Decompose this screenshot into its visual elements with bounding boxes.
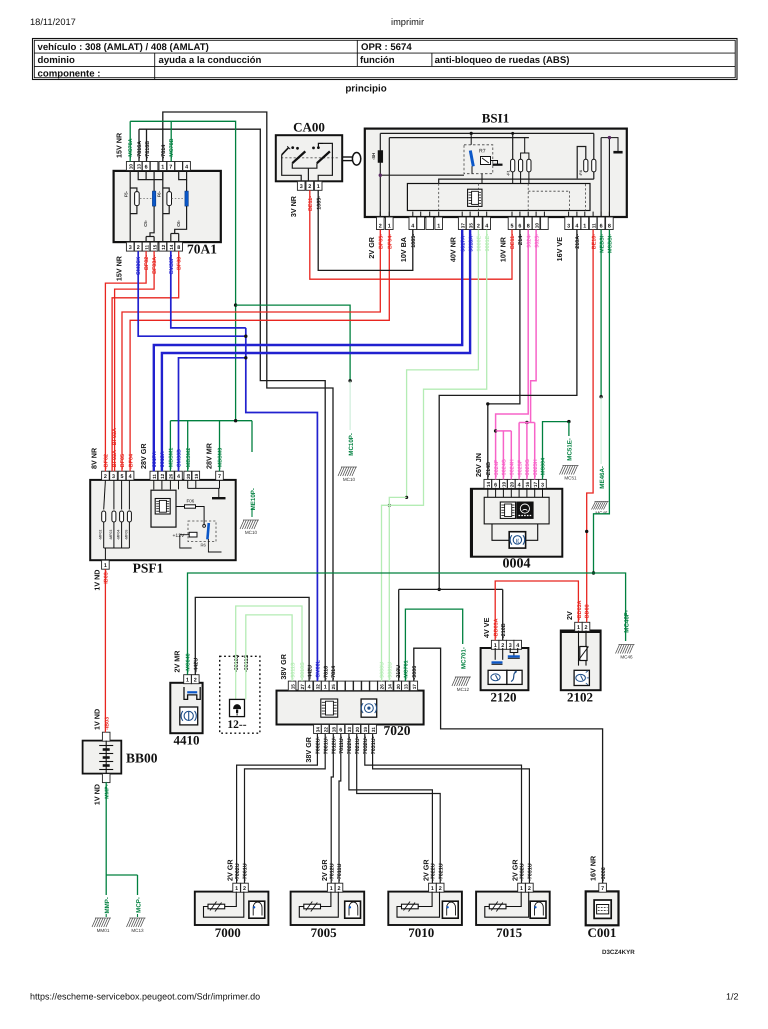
CA00 internal contacts [281, 157, 339, 159]
svg-text:-CM06L: -CM06L [316, 659, 322, 679]
svg-text:10V BA: 10V BA [399, 237, 408, 262]
svg-text:6: 6 [494, 482, 497, 488]
wire MC78A/MC78B green net [129, 121, 131, 161]
svg-text:-MBSM1: -MBSM1 [169, 448, 175, 469]
svg-text:-9024H: -9024H [510, 459, 516, 477]
svg-text:1: 1 [431, 886, 434, 892]
4410 pin row [184, 675, 192, 684]
CA00 pin2 funnel [292, 163, 317, 168]
PSF1 internal ground bar [187, 480, 189, 488]
R7 blue element [470, 151, 473, 167]
component 4410 box [170, 683, 202, 733]
svg-text:-BF04: -BF04 [128, 454, 134, 469]
wire 7816A/7816B (70A1 to 7020 pin1) [138, 129, 140, 161]
svg-text:18: 18 [332, 727, 337, 733]
svg-text:-9000U: -9000U [380, 662, 386, 680]
svg-text:14: 14 [388, 684, 393, 690]
svg-text:-MF04: -MF04 [117, 530, 121, 540]
svg-text:ayuda a la conducción: ayuda a la conducción [159, 55, 262, 66]
0004 inner cluster box [484, 497, 549, 524]
svg-text:-9024G: -9024G [502, 459, 508, 477]
7020 bottom pin row [314, 725, 322, 734]
svg-text:19: 19 [502, 482, 507, 488]
junction BD03 [585, 530, 588, 533]
svg-text:-Z14B: -Z14B [486, 462, 492, 477]
svg-text:40V NR: 40V NR [449, 236, 458, 262]
svg-text:BF03-: BF03- [177, 255, 183, 270]
svg-text:5: 5 [121, 474, 124, 480]
svg-text:1: 1 [324, 685, 327, 691]
svg-text:F6-: F6- [156, 190, 161, 197]
svg-text:1: 1 [388, 223, 391, 229]
pale green corner dot [405, 496, 408, 499]
svg-text:BF02-: BF02- [144, 255, 150, 270]
svg-text:https://escheme-servicebox.peu: https://escheme-servicebox.peugeot.com/S… [30, 992, 260, 1002]
70A1 blue fuse 1 [153, 180, 155, 192]
BB00 top pin [102, 732, 110, 741]
svg-text:2: 2 [243, 886, 246, 892]
svg-text:2: 2 [477, 223, 480, 229]
wheel sensor 7015 tooth icon [530, 901, 546, 918]
2102 sensor element [578, 631, 580, 645]
PSF1 relay R6 dashed [188, 521, 216, 542]
2102 icon [574, 670, 589, 685]
svg-text:8: 8 [177, 245, 180, 251]
svg-text:CM36K-: CM36K- [136, 255, 142, 275]
7020 ABS icon [361, 699, 377, 717]
svg-text:-CM36D: -CM36D [177, 449, 183, 469]
svg-text:2V MR: 2V MR [173, 650, 182, 673]
svg-text:MC46: MC46 [620, 655, 633, 660]
svg-text:16V NR: 16V NR [588, 855, 597, 881]
svg-text:F06: F06 [187, 499, 195, 504]
svg-text:-MC004: -MC004 [541, 458, 547, 477]
PSF1 top pin row [102, 471, 110, 480]
component wheel sensor 7015 box [476, 892, 550, 925]
wire 7814 (70A1 pin1 to 7020 pin25) [163, 112, 333, 681]
fuse F5 (70A1 left) [130, 188, 137, 192]
svg-text:8: 8 [527, 223, 530, 229]
svg-text:9024-: 9024- [526, 234, 532, 248]
svg-text:-MF02: -MF02 [99, 530, 103, 540]
svg-text:26: 26 [380, 684, 385, 690]
svg-text:2: 2 [528, 886, 531, 892]
MEBSI end dot [599, 395, 602, 398]
wire 9001E -> 9001U pale green [382, 230, 487, 681]
70A1 dotted gang lines [140, 198, 152, 200]
svg-text:-7021U: -7021U [438, 863, 444, 881]
wire 7031U [373, 734, 530, 883]
svg-text:28V MR: 28V MR [205, 442, 214, 469]
svg-text:1065-: 1065- [316, 196, 322, 210]
wire BE10 -> BD03 [587, 230, 593, 623]
svg-text:17: 17 [533, 482, 538, 488]
svg-text:MC10P-: MC10P- [348, 433, 355, 456]
7020 top pin row [288, 681, 296, 691]
0004 ABS telltale icon [492, 524, 509, 540]
wire MEBSI with leader [600, 230, 602, 397]
svg-text:2: 2 [308, 184, 311, 190]
svg-text:1: 1 [161, 164, 164, 170]
junction CM36K [244, 335, 247, 338]
svg-text:BF03A-: BF03A- [152, 255, 158, 274]
svg-text:7001U-: 7001U- [324, 736, 330, 754]
svg-text:9001E-: 9001E- [485, 234, 491, 252]
svg-text:-7032U: -7032U [520, 863, 526, 881]
BSI1 fuse row F1-F3 [511, 159, 515, 172]
svg-text:R7: R7 [479, 149, 486, 155]
component 0004 box [471, 489, 562, 557]
wire 9017A [154, 230, 462, 472]
svg-text:7031U-: 7031U- [371, 736, 377, 754]
svg-text:-MBSM3: -MBSM3 [218, 448, 224, 469]
0004 pin row [484, 479, 492, 488]
svg-text:-7002U: -7002U [235, 863, 241, 881]
ground MC46 lower [616, 645, 635, 654]
wheel sensor 7005 coil element [304, 904, 321, 909]
svg-text:-9006: -9006 [412, 666, 418, 680]
wheel sensor 7015 coil element [489, 904, 506, 909]
svg-text:-9025F: -9025F [517, 459, 523, 477]
svg-text:7: 7 [169, 164, 172, 170]
BSI1 fuse F4 pair [584, 159, 588, 172]
wire CM36D [179, 358, 246, 471]
component 7020 box [277, 691, 424, 725]
svg-text:-7816A: -7816A [137, 141, 143, 159]
svg-text:34: 34 [316, 727, 321, 733]
component wheel sensor 7010 box [388, 892, 462, 925]
svg-text:R6: R6 [201, 543, 207, 548]
svg-text:7000: 7000 [215, 925, 241, 940]
svg-text:7020: 7020 [384, 723, 411, 738]
svg-text:+12V: +12V [173, 533, 185, 539]
svg-text:7012U-: 7012U- [332, 736, 338, 754]
svg-text:-MBSM2: -MBSM2 [186, 448, 192, 469]
wire CM36F [171, 251, 246, 328]
svg-text:1V ND: 1V ND [93, 570, 102, 591]
wheel sensor 7000 tooth icon [249, 901, 265, 918]
svg-text:dominio: dominio [38, 55, 75, 66]
svg-text:función: función [360, 55, 395, 66]
BSI1 top bus A (inner frame top) [380, 132, 594, 134]
svg-text:MC51: MC51 [564, 476, 577, 481]
svg-text:CA00: CA00 [293, 120, 325, 135]
70A1 top pin row [126, 162, 134, 171]
svg-text:11: 11 [591, 223, 596, 228]
C001 connector icon [594, 900, 611, 918]
svg-text:-MC640: -MC640 [186, 653, 192, 672]
svg-text:11: 11 [152, 474, 157, 479]
wire BF05 [122, 230, 380, 472]
BSI1 mid horizontal to R7 [380, 174, 464, 176]
wheel sensor 7000 coil element [208, 904, 225, 909]
svg-text:-7814: -7814 [331, 666, 337, 680]
CA00 pin row [297, 181, 305, 190]
svg-text:-442U: -442U [194, 658, 200, 673]
PSF1 inner module + chip [151, 490, 176, 527]
svg-text:7021U-: 7021U- [355, 736, 361, 754]
CA00 accessory arrow [282, 148, 289, 155]
MC10P leader line [349, 381, 351, 430]
wire MMP/MCP [105, 782, 107, 875]
7020 chip icon [321, 699, 338, 717]
svg-text:CM36F-: CM36F- [169, 255, 175, 275]
wire MC51E stub [568, 422, 570, 436]
BSI1 inner frame bottom shelf [439, 179, 594, 183]
svg-text:Z14-: Z14- [518, 234, 524, 245]
wire 7011U [339, 734, 341, 883]
svg-text:7: 7 [601, 886, 604, 892]
svg-text:2V GR: 2V GR [367, 236, 376, 258]
svg-text:26V JN: 26V JN [474, 453, 483, 477]
12-- inner box + bulb icon [235, 660, 237, 699]
junction MC78 net [234, 303, 237, 306]
svg-text:2: 2 [379, 223, 382, 229]
wheel sensor 7005 tooth icon [345, 901, 361, 918]
svg-text:210A-: 210A- [575, 234, 581, 249]
svg-text:D3CZ4KYR: D3CZ4KYR [602, 949, 635, 956]
component 70A1 box [114, 171, 221, 242]
svg-text:-9025H: -9025H [533, 459, 539, 477]
svg-text:9000E-: 9000E- [477, 234, 483, 252]
svg-text:-MC78A: -MC78A [128, 138, 134, 158]
C001 pin [599, 883, 607, 892]
PSF1 internal fuses [104, 480, 106, 509]
svg-text:14: 14 [486, 482, 491, 488]
svg-text:4: 4 [518, 482, 521, 488]
svg-text:26: 26 [169, 473, 174, 479]
svg-text:-9024F: -9024F [494, 459, 500, 477]
2102 pin row [575, 622, 583, 631]
svg-text:MC10: MC10 [245, 530, 258, 535]
svg-text:MC701-: MC701- [461, 647, 468, 669]
svg-text:15V NR: 15V NR [115, 255, 124, 281]
wire 7032U [365, 734, 522, 883]
svg-text:MC46: MC46 [595, 511, 608, 516]
svg-text:12--: 12-- [227, 719, 246, 731]
svg-text:BB00: BB00 [126, 751, 158, 766]
svg-text:10V NR: 10V NR [499, 236, 508, 262]
R7 connections [470, 133, 472, 144]
svg-text:-7011U: -7011U [337, 864, 343, 881]
ground MC12 [452, 677, 471, 686]
svg-text:13: 13 [404, 684, 409, 690]
svg-text:2: 2 [585, 625, 588, 631]
wire MC004 [543, 422, 569, 480]
svg-text:1: 1 [583, 223, 586, 229]
BSI1 dashed pin links [438, 184, 440, 211]
wire IB03 (PSF1 to BB00) [104, 569, 106, 732]
2120 icons [488, 670, 507, 684]
ground MC10 (under MC10P) [338, 467, 357, 476]
component CA00 box [276, 135, 342, 181]
svg-text:7: 7 [218, 474, 221, 480]
junction 9025 [525, 421, 528, 424]
svg-text:11: 11 [144, 244, 149, 249]
svg-text:33: 33 [347, 727, 352, 733]
svg-text:MC13: MC13 [131, 928, 144, 933]
wire MC10P branch [236, 305, 351, 381]
svg-text:15V NR: 15V NR [115, 132, 124, 158]
component C001 box [586, 891, 619, 925]
junction MC10P leader dot [348, 379, 351, 382]
wire 7021U [357, 734, 441, 883]
svg-text:1V ND: 1V ND [93, 784, 102, 805]
R7 ground bar [491, 161, 498, 165]
PSF1 bottom pin 1 [102, 560, 110, 569]
CA00 pin1 loop [318, 143, 332, 181]
CA00 switch blade 2 [317, 151, 330, 163]
svg-text:2120: 2120 [491, 690, 517, 705]
wire 9018A [162, 230, 470, 472]
wire BF03 [112, 251, 179, 471]
wire MC640 green bus [188, 573, 626, 675]
wire Z14 -> Z14B [488, 230, 520, 480]
svg-text:OPR : 5674: OPR : 5674 [361, 42, 412, 53]
4410 switch element [184, 687, 200, 699]
svg-text:principio: principio [345, 84, 386, 95]
svg-text:-MF03: -MF03 [109, 530, 113, 540]
svg-text:2V GR: 2V GR [511, 859, 520, 881]
svg-text:2V GR: 2V GR [421, 859, 430, 881]
svg-text:1: 1 [437, 223, 440, 229]
component wheel sensor 7000 box [195, 892, 269, 925]
svg-text:1: 1 [317, 184, 320, 190]
wire BF02 [105, 251, 146, 471]
svg-text:-MC78B: -MC78B [169, 138, 175, 158]
svg-text:15: 15 [152, 244, 157, 250]
0004 chip icon [500, 502, 515, 518]
wire 9006 (7020 to C001) [414, 648, 603, 883]
svg-text:C6-: C6- [176, 219, 181, 226]
svg-text:16: 16 [525, 482, 530, 488]
4410 brake icon [180, 707, 198, 725]
BSI1 inner module box [407, 184, 590, 211]
wire BE11 (CA00 to BSI1) [310, 190, 512, 279]
svg-text:19: 19 [363, 727, 368, 733]
component 2102 box [561, 631, 601, 691]
svg-text:2: 2 [104, 474, 107, 480]
svg-text:-7001U: -7001U [243, 863, 249, 881]
svg-text:-9010S: -9010S [234, 654, 240, 672]
70A1 blue fuse 2 [186, 180, 188, 192]
wire BF04 [130, 230, 389, 472]
svg-text:PSF1: PSF1 [133, 561, 164, 576]
svg-text:27: 27 [300, 684, 305, 690]
wire 442U [195, 597, 309, 681]
svg-text:6: 6 [145, 164, 148, 170]
wire 9010S [236, 606, 302, 681]
svg-text:3: 3 [129, 245, 132, 251]
BSI1 chip icon [468, 189, 482, 206]
svg-text:-9010S: -9010S [300, 662, 306, 680]
svg-text:C001: C001 [588, 925, 617, 940]
svg-text:IB03-: IB03- [104, 570, 110, 583]
svg-text:-7816: -7816 [323, 666, 329, 680]
svg-text:MM01: MM01 [97, 928, 110, 933]
junction MC51E [567, 420, 570, 423]
svg-text:C5-: C5- [143, 219, 148, 226]
ME46A leader line [600, 397, 602, 464]
junction 210 net [438, 588, 441, 591]
svg-text:2V: 2V [565, 611, 574, 620]
svg-text:10: 10 [128, 164, 133, 170]
component BSI1 box [365, 129, 627, 217]
svg-text:6: 6 [339, 727, 342, 733]
svg-text:MC51E-: MC51E- [567, 438, 574, 461]
svg-text:BE11-: BE11- [308, 196, 314, 211]
fuse F6 (70A1 right) [163, 188, 169, 192]
svg-text:6: 6 [600, 223, 603, 229]
wheel sensor 7010 coil element [402, 904, 419, 909]
svg-text:12: 12 [161, 244, 166, 250]
junction CM36D [244, 356, 247, 359]
2120 pin row [491, 640, 499, 649]
svg-text:anti-bloqueo de ruedas (ABS): anti-bloqueo de ruedas (ABS) [435, 55, 570, 66]
svg-text:MC10: MC10 [343, 477, 356, 482]
svg-text:MCP-: MCP- [136, 897, 143, 913]
wire MC701 [405, 609, 462, 681]
svg-text:7010: 7010 [408, 925, 434, 940]
wire 9024 pink net [496, 230, 529, 480]
svg-text:20: 20 [186, 473, 191, 479]
svg-text:MCBSI-: MCBSI- [608, 234, 614, 253]
svg-text:3: 3 [541, 482, 544, 488]
CA00 pin3 loop [282, 155, 302, 182]
svg-text:componente :: componente : [38, 68, 101, 79]
wire 9011S [246, 615, 292, 681]
svg-text:32: 32 [316, 684, 321, 690]
svg-text:2: 2 [137, 245, 140, 251]
pale green crossing dot [388, 504, 391, 507]
svg-text:8: 8 [608, 223, 611, 229]
ground MC10 (under ME10P) [240, 520, 259, 529]
svg-text:22: 22 [323, 727, 328, 733]
svg-text:20: 20 [355, 727, 360, 733]
wire BF03A [115, 251, 155, 471]
svg-text:3: 3 [300, 184, 303, 190]
svg-text:9025-: 9025- [534, 234, 540, 248]
svg-text:28V GR: 28V GR [139, 443, 148, 469]
junction MBSM/MC78 [234, 419, 237, 422]
svg-text:35: 35 [468, 223, 473, 229]
svg-text:1: 1 [330, 886, 333, 892]
svg-text:4: 4 [129, 474, 132, 480]
svg-text:20: 20 [510, 482, 515, 488]
wire 7012U [331, 734, 333, 883]
2120 switch elements [494, 648, 496, 660]
svg-text:14: 14 [169, 244, 174, 250]
BSI1 right risers to internal ground [600, 138, 602, 217]
svg-text:MMP-: MMP- [105, 784, 111, 799]
component PSF1 box [90, 480, 236, 560]
svg-text:7005: 7005 [311, 925, 338, 940]
svg-text:vehículo : 308 (AMLAT) / 408 (: vehículo : 308 (AMLAT) / 408 (AMLAT) [38, 42, 209, 53]
BSI1 top bus B (pin 1 riser) [388, 138, 390, 217]
svg-text:16V VE: 16V VE [555, 237, 564, 262]
svg-text:25: 25 [331, 684, 336, 690]
svg-text:19: 19 [194, 473, 199, 479]
svg-text:31: 31 [371, 727, 376, 733]
svg-text:ME10P-: ME10P- [250, 488, 257, 510]
component BB00 box [83, 741, 122, 774]
svg-text:BF04-: BF04- [388, 234, 394, 249]
svg-text:4: 4 [177, 474, 180, 480]
svg-text:7022U-: 7022U- [347, 736, 353, 754]
svg-text:BSI1: BSI1 [482, 111, 509, 126]
svg-text:2: 2 [439, 886, 442, 892]
wire 7022U [349, 734, 433, 883]
